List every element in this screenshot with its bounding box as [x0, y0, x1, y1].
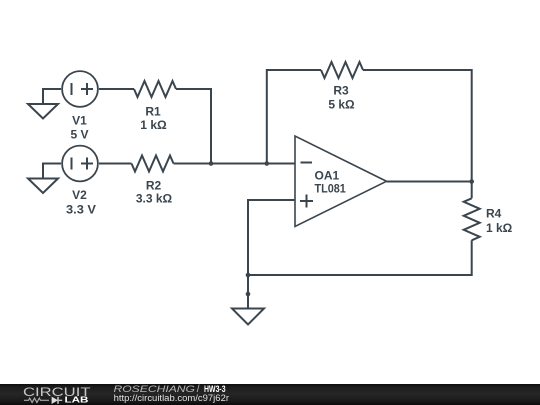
svg-text:5 kΩ: 5 kΩ: [328, 97, 355, 111]
svg-text:V2: V2: [72, 188, 87, 202]
svg-text:1 kΩ: 1 kΩ: [486, 221, 513, 235]
svg-text:LAB: LAB: [65, 395, 89, 405]
svg-text:OA1: OA1: [315, 168, 340, 182]
svg-text:R3: R3: [333, 84, 349, 98]
svg-text:http://circuitlab.com/c97j62r: http://circuitlab.com/c97j62r: [114, 393, 229, 403]
svg-text:V1: V1: [72, 113, 87, 127]
svg-text:5 V: 5 V: [70, 128, 88, 142]
svg-text:3.3 kΩ: 3.3 kΩ: [136, 192, 173, 206]
svg-text:1 kΩ: 1 kΩ: [140, 118, 167, 132]
svg-text:R4: R4: [486, 207, 502, 221]
svg-text:3.3 V: 3.3 V: [66, 203, 96, 217]
svg-text:R1: R1: [145, 105, 161, 119]
svg-text:TL081: TL081: [315, 181, 347, 195]
